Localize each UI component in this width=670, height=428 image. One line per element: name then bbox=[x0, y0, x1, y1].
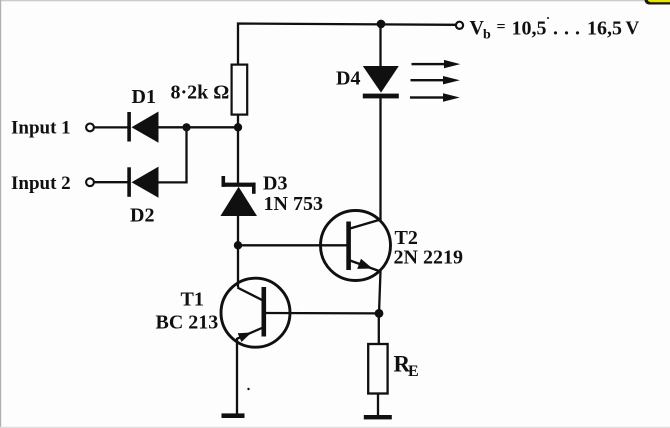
svg-text:T2: T2 bbox=[395, 227, 418, 249]
svg-text:T1: T1 bbox=[181, 288, 204, 310]
svg-text:Input 1: Input 1 bbox=[11, 117, 71, 138]
svg-text:.: . bbox=[575, 18, 580, 40]
svg-text:b: b bbox=[483, 28, 491, 43]
svg-text:V: V bbox=[626, 18, 640, 39]
svg-text:2N 2219: 2N 2219 bbox=[394, 247, 463, 269]
svg-text:D2: D2 bbox=[130, 205, 154, 227]
svg-text:.: . bbox=[553, 18, 558, 40]
svg-text:.: . bbox=[564, 18, 569, 40]
svg-text:Input 2: Input 2 bbox=[11, 173, 71, 194]
svg-text:8·2k Ω: 8·2k Ω bbox=[171, 82, 230, 104]
svg-text:=: = bbox=[497, 19, 506, 36]
svg-text:D4: D4 bbox=[336, 68, 360, 90]
svg-text:10,5: 10,5 bbox=[512, 18, 547, 40]
svg-text:1N 753: 1N 753 bbox=[264, 193, 323, 215]
svg-text:D3: D3 bbox=[263, 172, 287, 194]
svg-text:16,5: 16,5 bbox=[587, 18, 622, 40]
svg-text:BC 213: BC 213 bbox=[156, 312, 219, 334]
svg-text:E: E bbox=[408, 363, 419, 380]
svg-text:D1: D1 bbox=[132, 86, 156, 108]
